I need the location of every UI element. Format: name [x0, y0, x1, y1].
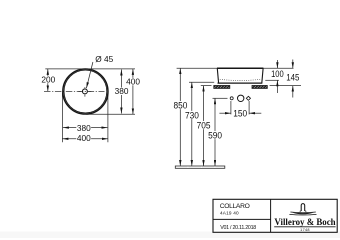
- svg-text:Ø 45: Ø 45: [95, 54, 113, 64]
- svg-text:200: 200: [41, 74, 55, 84]
- svg-text:COLLARO: COLLARO: [220, 203, 250, 210]
- svg-text:Villeroy & Boch: Villeroy & Boch: [274, 217, 335, 227]
- svg-text:380: 380: [77, 123, 91, 133]
- svg-text:590: 590: [208, 129, 222, 140]
- svg-text:4A19 40: 4A19 40: [220, 211, 239, 216]
- svg-text:1748: 1748: [300, 228, 310, 232]
- svg-text:V01 / 20.11.2018: V01 / 20.11.2018: [220, 225, 256, 231]
- svg-text:400: 400: [77, 133, 91, 143]
- svg-text:145: 145: [286, 72, 299, 83]
- svg-text:150: 150: [233, 108, 247, 119]
- svg-text:380: 380: [115, 86, 129, 96]
- svg-text:100: 100: [271, 68, 284, 79]
- svg-text:400: 400: [126, 76, 140, 86]
